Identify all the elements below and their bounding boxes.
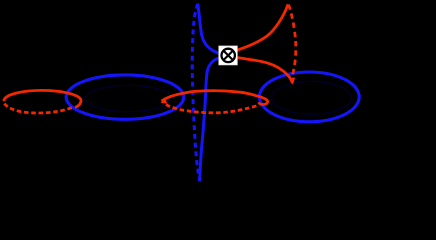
- node: framed dot symbol box: [219, 46, 238, 65]
- wire: flat red curve solid top arc with right hook: [162, 91, 268, 105]
- wire: left red ellipse dashed bottom arc: [4, 104, 72, 113]
- wire: red teardrop dashed descending branch: [289, 5, 296, 76]
- wire: vertical blue loop, solid right side through box: [198, 4, 222, 182]
- node: arrowhead on flat red curve: [161, 97, 168, 103]
- wire: middle blue ellipse: [66, 75, 184, 119]
- node: faint inner ellipse (right torus): [272, 81, 352, 114]
- wire: right blue ellipse: [259, 72, 359, 122]
- node: faint inner ellipse (middle torus): [86, 85, 172, 111]
- wire: vertical blue loop, dashed left side: [192, 4, 199, 181]
- wire: left red ellipse solid top arc: [4, 90, 81, 107]
- node: flare at lower branch tip: [290, 77, 296, 84]
- wire: red teardrop solid upper branch to cusp apex: [237, 4, 288, 50]
- wire: flat red curve dashed bottom arc: [166, 105, 258, 113]
- wire: red teardrop solid lower branch: [237, 58, 293, 84]
- node: circled-X symbol: [222, 49, 235, 62]
